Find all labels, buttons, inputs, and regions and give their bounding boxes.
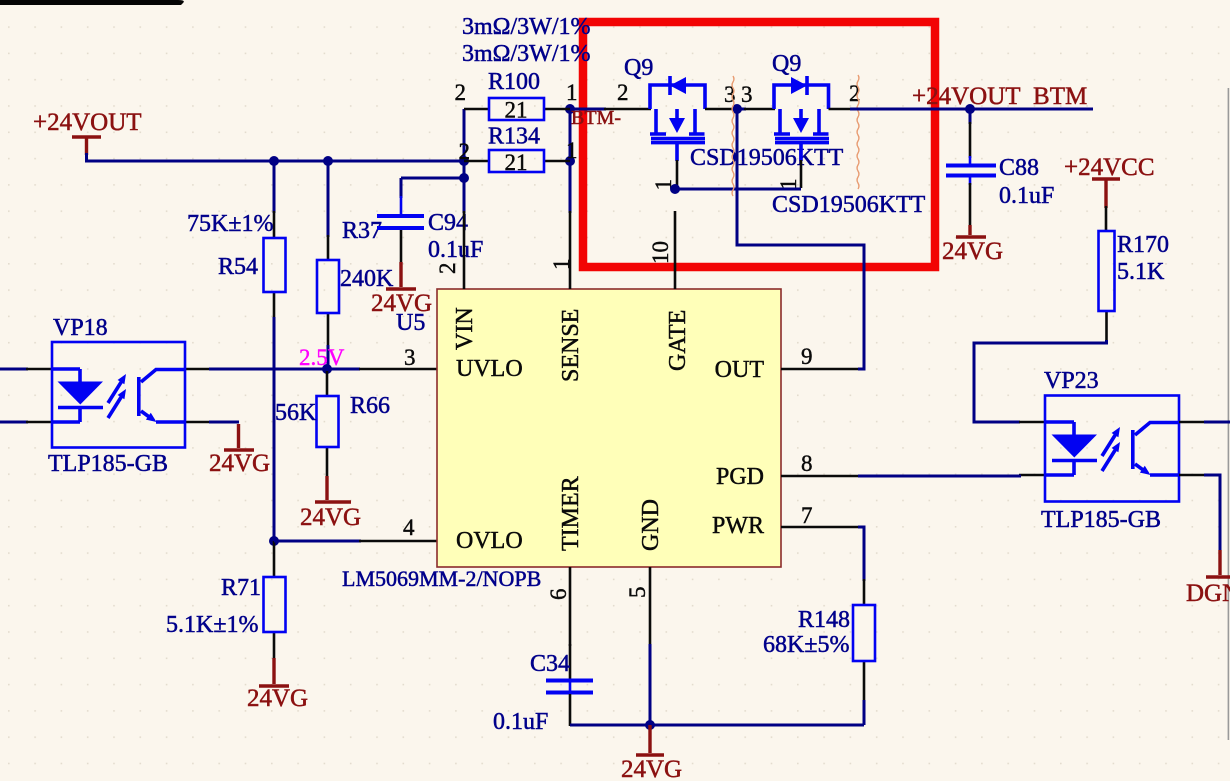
svg-text:1: 1: [549, 259, 574, 271]
pin 5 GND: [625, 499, 664, 646]
node junction gate: [670, 184, 680, 194]
svg-text:2: 2: [435, 263, 460, 275]
svg-text:DGND: DGND: [1186, 580, 1230, 607]
capacitor C88: [946, 109, 1054, 227]
resistor R148: [763, 579, 875, 702]
wire left node vertical (VIN net): [463, 109, 466, 213]
pin 3 UVLO: [359, 368, 437, 371]
wire bottom rail: [570, 724, 864, 727]
wire 240K branch upper: [327, 161, 330, 237]
node junction ground rail: [645, 720, 655, 730]
svg-text:3mΩ/3W/1%: 3mΩ/3W/1%: [462, 14, 590, 40]
svg-text:TLP185-GB: TLP185-GB: [1041, 507, 1161, 533]
wire gate net: [675, 188, 801, 191]
node junction common source: [732, 104, 742, 114]
svg-text:21: 21: [505, 98, 528, 123]
transistor Q9 (right CSD19506KTT): [744, 51, 926, 218]
wire R54 branch upper: [273, 161, 276, 213]
svg-text:5.1K: 5.1K: [1117, 259, 1165, 285]
svg-text:OVLO: OVLO: [456, 528, 523, 554]
wire VP18 collector to UVLO node: [209, 368, 360, 371]
svg-text:1: 1: [566, 138, 578, 163]
node junction R134 right: [565, 156, 575, 166]
svg-text:4: 4: [403, 515, 415, 540]
svg-text:R66: R66: [350, 393, 390, 419]
resistor R170: [1099, 206, 1170, 342]
svg-text:TIMER: TIMER: [558, 476, 584, 551]
svg-text:3: 3: [404, 345, 416, 370]
svg-text:C88: C88: [999, 155, 1039, 181]
svg-text:VP18: VP18: [53, 315, 108, 341]
svg-text:UVLO: UVLO: [456, 356, 523, 382]
svg-text:10: 10: [648, 241, 673, 264]
wire PGD to VP23: [858, 475, 1021, 478]
svg-text:7: 7: [801, 503, 813, 528]
wire C94 to VIN vertical: [401, 177, 464, 180]
svg-text:0.1uF: 0.1uF: [999, 183, 1054, 209]
black title bar top-left: [0, 0, 184, 5]
wire TIMER to C34: [569, 644, 572, 680]
svg-text:PGD: PGD: [716, 464, 764, 490]
svg-text:VIN: VIN: [452, 307, 478, 350]
ground 24VG below R71: [247, 658, 308, 712]
svg-text:2: 2: [617, 80, 629, 105]
resistor R71: [166, 541, 286, 660]
pin 9 OUT: [715, 344, 858, 383]
svg-text:C34: C34: [530, 651, 570, 677]
resistor R100: [455, 69, 578, 123]
svg-text:PWR: PWR: [712, 513, 764, 539]
svg-text:3: 3: [741, 82, 753, 107]
node junction C94 tap: [459, 173, 469, 183]
svg-text:CSD19506KTT: CSD19506KTT: [772, 192, 926, 218]
node junction R54 tap: [269, 156, 279, 166]
node junction R37 tap: [323, 156, 333, 166]
pin 7 PWR: [712, 503, 858, 539]
svg-text:5.1K±1%: 5.1K±1%: [166, 612, 259, 638]
svg-text:1: 1: [566, 80, 578, 105]
svg-text:VP23: VP23: [1044, 368, 1099, 394]
ERC squiggle right: [857, 75, 859, 189]
svg-text:R100: R100: [488, 69, 540, 95]
pin 4 OVLO: [359, 540, 437, 543]
resistor R37 240K: [317, 218, 394, 347]
svg-text:2: 2: [459, 139, 471, 164]
svg-text:Q9: Q9: [772, 51, 801, 77]
svg-text:68K±5%: 68K±5%: [763, 632, 850, 658]
svg-text:6: 6: [546, 589, 571, 601]
transistor Q9 (left CSD19506KTT): [604, 55, 844, 191]
wire common source to OUT: [737, 109, 864, 369]
pin stubs VP23 left: [1019, 422, 1045, 475]
power symbol +24VOUT: [33, 109, 142, 155]
svg-text:+24VOUT BTM: +24VOUT BTM: [912, 83, 1087, 110]
wire VP23 collector out: [1179, 421, 1206, 424]
svg-text:CSD19506KTT: CSD19506KTT: [690, 145, 844, 171]
svg-text:24VG: 24VG: [942, 238, 1003, 265]
wire GND pin down: [649, 644, 652, 725]
svg-text:24VG: 24VG: [247, 685, 308, 712]
node junction R100 right: [565, 104, 575, 114]
svg-text:9: 9: [801, 344, 813, 369]
capacitor C34: [493, 651, 593, 735]
resistor R54: [187, 211, 286, 319]
svg-text:GND: GND: [638, 499, 664, 551]
svg-text:R37: R37: [342, 218, 382, 244]
node junction OVLO: [269, 536, 279, 546]
pin 10 GATE: [648, 211, 691, 371]
svg-text:TLP185-GB: TLP185-GB: [48, 451, 168, 477]
svg-text:SENSE: SENSE: [558, 309, 584, 382]
svg-text:+24VCC: +24VCC: [1064, 154, 1155, 181]
svg-text:24VG: 24VG: [300, 504, 361, 531]
svg-text:21: 21: [505, 150, 528, 175]
wire PWR to R148: [858, 527, 864, 581]
ground 24VG bottom: [621, 725, 682, 781]
svg-text:240K: 240K: [340, 266, 394, 292]
wire VP23 emitter to DGND: [1179, 474, 1206, 477]
ground 24VG below C88: [942, 225, 1003, 265]
svg-text:24VG: 24VG: [209, 450, 270, 477]
svg-text:R71: R71: [221, 575, 261, 601]
ground 24VG below VP18 emitter: [209, 422, 270, 477]
wire R170 to VP23 anode: [974, 340, 1107, 422]
wire R148 to ground rail: [863, 700, 866, 725]
svg-text:0.1uF: 0.1uF: [493, 709, 548, 735]
svg-text:C94: C94: [428, 210, 468, 236]
resistor R66: [275, 371, 390, 478]
svg-text:R170: R170: [1117, 232, 1169, 258]
svg-text:3mΩ/3W/1%: 3mΩ/3W/1%: [462, 41, 590, 67]
ground 24VG below R66: [300, 476, 361, 531]
svg-text:U5: U5: [396, 310, 425, 336]
node junction UVLO 2.5V: [322, 364, 332, 374]
svg-text:OUT: OUT: [715, 357, 765, 383]
pin 1 SENSE: [549, 211, 584, 382]
svg-text:R148: R148: [798, 607, 850, 633]
red highlight box: [583, 22, 935, 267]
svg-text:2.5V: 2.5V: [299, 345, 345, 370]
pin 8 PGD: [716, 451, 858, 490]
wire right node vertical (SENSE net): [569, 109, 572, 213]
pin 2 VIN: [435, 211, 478, 350]
ground DGND: [1186, 550, 1230, 607]
optocoupler VP23: [1041, 368, 1179, 533]
svg-text:R134: R134: [488, 124, 540, 150]
wire +24VOUT_BTM: [850, 108, 1093, 111]
IC U5 LM5069MM-2/NOPB body: [437, 289, 781, 567]
svg-text:56K: 56K: [275, 400, 317, 426]
wire between fets: [732, 108, 746, 111]
wire +24VOUT main horizontal: [87, 153, 465, 161]
pin 6 TIMER: [546, 476, 584, 646]
ground 24VG below C94: [371, 262, 432, 317]
svg-text:R54: R54: [218, 254, 258, 280]
wire 240K to UVLO node: [327, 345, 330, 369]
svg-text:2: 2: [455, 80, 467, 105]
node junction C88 tap: [965, 104, 975, 114]
grey panel edge right: [1228, 88, 1230, 740]
svg-text:BTM-: BTM-: [571, 107, 621, 129]
svg-text:LM5069MM-2/NOPB: LM5069MM-2/NOPB: [342, 566, 541, 591]
svg-text:0.1uF: 0.1uF: [428, 237, 483, 263]
capacitor C94: [377, 178, 483, 264]
optocoupler VP18: [0, 315, 211, 477]
svg-text:5: 5: [625, 587, 650, 599]
svg-text:8: 8: [801, 451, 813, 476]
svg-text:75K±1%: 75K±1%: [187, 211, 274, 237]
wire BTM- segment to Q9: [570, 108, 606, 111]
svg-text:Q9: Q9: [624, 55, 653, 81]
node junction main/R134: [459, 156, 469, 166]
svg-text:+24VOUT: +24VOUT: [33, 109, 142, 136]
power symbol +24VCC: [1064, 154, 1155, 208]
wire R54 to OVLO node: [273, 317, 276, 541]
svg-text:GATE: GATE: [665, 310, 691, 371]
wire OVLO: [274, 540, 361, 543]
ERC squiggle left: [732, 76, 734, 196]
svg-text:24VG: 24VG: [621, 756, 682, 781]
resistor R134: [459, 124, 578, 176]
